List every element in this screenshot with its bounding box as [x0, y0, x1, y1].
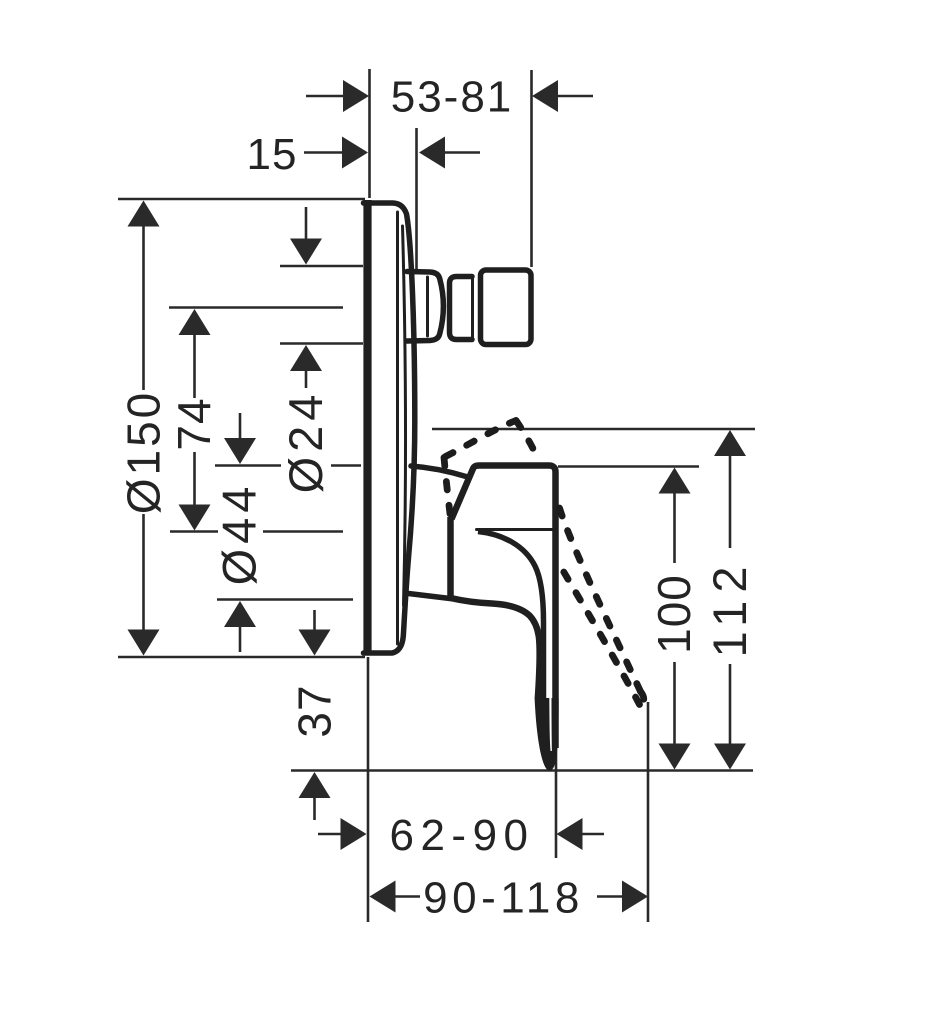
arrow 62-90 right	[557, 818, 583, 850]
extension line D24 bottom	[280, 342, 363, 345]
arrow D24 lower	[290, 345, 322, 371]
lever tip fill	[535, 698, 559, 771]
dimension 37 tail upper	[313, 610, 316, 631]
dashed handle front upper edge	[516, 421, 537, 457]
sleeve top edge	[411, 466, 466, 477]
arrow 74 bottom	[179, 505, 211, 531]
dimension D24 tail upper	[305, 207, 308, 240]
svg-text:62-90: 62-90	[389, 811, 534, 860]
knob collar inner line	[426, 277, 429, 336]
extension line 74 top	[169, 306, 343, 309]
plate dome contour line	[403, 226, 406, 605]
svg-text:74: 74	[168, 397, 220, 450]
dimension 62-90 tail right	[581, 833, 604, 836]
arrow 37 lower	[299, 772, 331, 798]
extension line bottom datum	[291, 769, 753, 772]
dimension 37 tail lower	[313, 797, 316, 820]
knob collar outline	[407, 272, 443, 342]
dashed lever inner edge	[564, 572, 640, 705]
svg-text:Ø150: Ø150	[118, 390, 170, 515]
sleeve bottom edge	[409, 594, 451, 599]
extension line D150 bottom	[118, 656, 365, 659]
extension line V6 wall face lower	[367, 657, 370, 922]
handle inner J curve	[478, 532, 544, 702]
dashed lever tip cap	[640, 692, 644, 705]
extension line D150 top	[118, 198, 365, 201]
svg-text:100: 100	[648, 574, 700, 654]
extension line V5 dashed lever tip	[647, 702, 650, 922]
svg-text:Ø44: Ø44	[213, 482, 266, 586]
dashed lever outer edge	[560, 508, 641, 692]
dimension D24 tail lower	[305, 370, 308, 388]
svg-text:112: 112	[703, 559, 756, 658]
extension line V1 plate back face	[368, 69, 371, 198]
arrow D24 upper	[290, 239, 322, 265]
dimension D150 line lower	[142, 514, 145, 631]
svg-text:15: 15	[247, 130, 298, 179]
arrow 15 right	[419, 137, 445, 169]
lever tip slit	[549, 698, 552, 751]
dashed handle back edge	[444, 458, 451, 519]
escutcheon plate outline	[364, 203, 415, 653]
handle left slope	[452, 468, 474, 520]
arrow 112 top	[714, 430, 746, 456]
dimension 53-81 tail right	[557, 95, 593, 98]
dimension 100 line upper	[673, 493, 676, 563]
extension line 112 top	[432, 428, 755, 431]
arrow D150 bottom	[128, 630, 160, 656]
arrow 100 bottom	[659, 744, 691, 770]
svg-text:90-118: 90-118	[423, 874, 584, 923]
dimension 74 line lower	[193, 452, 196, 506]
arrow 100 top	[659, 468, 691, 494]
dimension 112 line lower	[729, 664, 732, 745]
arrow 112 bottom	[714, 744, 746, 770]
extension line D24 top	[280, 265, 363, 268]
arrow D150 top	[128, 201, 160, 227]
dimension 53-81 tail left	[306, 95, 344, 98]
arrow D44 upper	[224, 438, 256, 464]
arrow 90-118 right	[622, 881, 648, 913]
extension line V2 knob front face	[530, 70, 533, 267]
arrow 53-81 left	[343, 80, 369, 112]
handle seam line	[477, 528, 554, 531]
arrow 37 upper	[299, 630, 331, 656]
dimension 90-118 tail left	[394, 895, 420, 898]
escutcheon plate left edge	[363, 200, 371, 655]
extension line D44 bottom	[217, 598, 353, 601]
arrow D44 lower	[224, 601, 256, 627]
dimension 112 line upper	[729, 455, 732, 548]
dimension 74 line upper	[193, 334, 196, 398]
arrow 15 left	[342, 137, 368, 169]
handle bottom edge and hook	[451, 598, 540, 699]
dimension 15 tail right	[444, 151, 480, 154]
svg-text:53-81: 53-81	[391, 73, 514, 122]
dimension D44 tail lower	[239, 626, 242, 652]
dimension D150 line upper	[142, 225, 145, 390]
handle body top edge	[474, 466, 556, 749]
arrow 53-81 right	[532, 80, 558, 112]
knob cap	[481, 270, 532, 345]
handle left vertical	[447, 517, 454, 597]
svg-text:Ø24: Ø24	[279, 390, 332, 494]
extension line 100 top	[558, 465, 699, 468]
plate inner face line	[396, 212, 399, 644]
extension line V3 plate apex	[415, 128, 418, 271]
dimension 15 tail left	[304, 151, 343, 154]
svg-text:37: 37	[289, 684, 341, 737]
knob middle cylinder	[450, 277, 473, 340]
extension line V4 lever tip	[555, 700, 558, 858]
dashed handle top edge	[446, 421, 517, 457]
dimension 90-118 tail right	[597, 895, 623, 898]
knob cylinder right face line	[471, 279, 474, 337]
extension line D44 top	[215, 464, 281, 467]
dimension 62-90 tail left	[318, 833, 342, 836]
arrow 90-118 left	[370, 881, 396, 913]
dimension 100 line lower	[673, 662, 676, 745]
dimension D44 tail upper	[239, 413, 242, 440]
arrow 62-90 left	[341, 818, 367, 850]
arrow 74 top	[179, 309, 211, 335]
extension line 74 bottom	[170, 530, 218, 533]
